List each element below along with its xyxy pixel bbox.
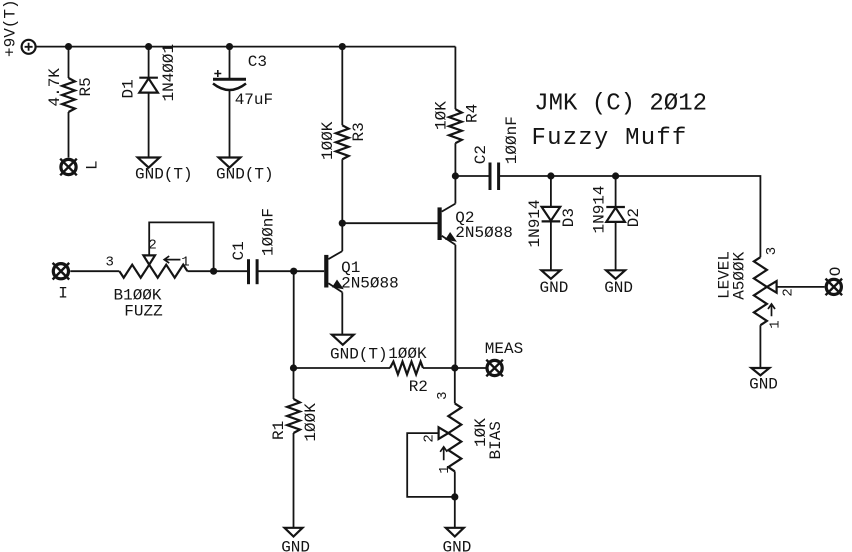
svg-text:1N914: 1N914 — [590, 185, 608, 233]
wire: junction down to R1 — [293, 368, 295, 399]
svg-text:R1: R1 — [270, 421, 288, 440]
potentiometer BIAS 10K — [422, 391, 505, 473]
node: FUZZ/C1 junction — [210, 268, 217, 275]
svg-text:3: 3 — [435, 391, 451, 399]
resistor R1 100K — [270, 399, 320, 442]
wire: rail to D2 — [615, 176, 617, 207]
node: R2/Q2/BIAS junction — [451, 364, 458, 371]
svg-text:1N4ØØ1: 1N4ØØ1 — [160, 44, 178, 102]
wire: I to FUZZ pot — [70, 270, 119, 272]
svg-text:1N914: 1N914 — [526, 199, 544, 247]
wire: rail to R3 — [341, 47, 343, 126]
diode D2 1N914 — [590, 185, 642, 233]
wire: C1 to Q1 base — [257, 270, 324, 272]
ground GND(T) under C3 — [216, 158, 274, 184]
node: BIAS loop junction — [451, 493, 458, 500]
diode D3 1N914 — [526, 199, 578, 247]
svg-text:GND: GND — [442, 539, 471, 552]
capacitor C2 100nF — [472, 116, 521, 190]
svg-text:3: 3 — [105, 255, 113, 271]
svg-text:JMK (C) 2Ø12: JMK (C) 2Ø12 — [534, 91, 707, 118]
svg-text:C3: C3 — [248, 53, 267, 71]
svg-text:R5: R5 — [77, 77, 95, 96]
svg-text:3: 3 — [764, 247, 780, 255]
resistor R3 100K — [319, 121, 368, 160]
svg-text:1: 1 — [181, 255, 189, 271]
svg-text:GND: GND — [281, 539, 310, 552]
svg-text:BIAS: BIAS — [487, 421, 505, 459]
svg-text:1ØØnF: 1ØØnF — [259, 208, 277, 256]
wire: C2 to clipping rail — [499, 176, 761, 257]
svg-text:1: 1 — [768, 320, 784, 328]
svg-text:C1: C1 — [230, 241, 248, 260]
node: C1/R1 branch junction — [290, 268, 297, 275]
node: R5 tap junction — [65, 43, 72, 50]
svg-text:Fuzzy Muff: Fuzzy Muff — [532, 125, 688, 152]
resistor R4 10K — [433, 101, 482, 143]
svg-text:1ØK: 1ØK — [433, 101, 451, 130]
node: C3 tap junction — [226, 43, 233, 50]
svg-text:2: 2 — [422, 434, 438, 442]
svg-text:I: I — [58, 285, 68, 303]
ground GND under D2 — [604, 270, 633, 297]
connector MEAS — [485, 340, 523, 376]
wire: rail to D1 — [148, 47, 150, 78]
wire: Q1 emitter to ground — [341, 292, 343, 334]
ground GND(T) under D1 — [135, 158, 193, 184]
wire: R1 to ground — [293, 433, 295, 528]
svg-text:R3: R3 — [350, 122, 368, 141]
transistor Q1 2N5088 — [324, 251, 399, 292]
wire: FUZZ to C1 — [187, 270, 248, 272]
wire: R4 to C2 node — [454, 143, 456, 176]
ground GND under D3 — [540, 270, 569, 297]
wire: Q1 collector up — [341, 223, 343, 251]
capacitor C3 47uF polarized — [213, 53, 273, 109]
svg-text:GND: GND — [540, 279, 569, 297]
svg-text:1ØØK: 1ØØK — [302, 403, 320, 442]
ground GND under BIAS — [442, 528, 471, 552]
wire: D1 to ground — [148, 93, 150, 158]
ground GND(T) under Q1 — [330, 335, 388, 364]
svg-text:D2: D2 — [625, 208, 643, 227]
node: R1 junction — [290, 364, 297, 371]
wire: R3 to Q1 collector node — [341, 159, 343, 223]
svg-text:GND: GND — [604, 279, 633, 297]
node: D3 tap junction — [547, 172, 554, 179]
connector I input — [53, 263, 70, 303]
wire: R5 to L connector — [68, 112, 70, 158]
svg-text:GND: GND — [749, 376, 778, 394]
wire: junction to C2 — [455, 175, 490, 177]
wire: LEVEL bottom to ground — [759, 325, 761, 368]
svg-text:1: 1 — [437, 465, 453, 473]
svg-text:GND(T): GND(T) — [330, 346, 388, 364]
svg-text:D3: D3 — [560, 208, 578, 227]
node: R4/C2/Q2 collector junction — [452, 172, 459, 179]
svg-text:D1: D1 — [120, 79, 138, 98]
capacitor C1 100nF — [230, 208, 277, 284]
wire: rail to C3 — [229, 47, 231, 80]
svg-text:O: O — [827, 267, 845, 277]
svg-text:4.7K: 4.7K — [46, 68, 64, 107]
node: D2 tap junction — [612, 172, 619, 179]
svg-text:1ØØK: 1ØØK — [319, 121, 337, 160]
wire: junction down to R2 rail — [293, 271, 295, 368]
power connector +9V(T) — [2, 0, 36, 57]
wire: rail to R5 — [68, 47, 70, 78]
svg-text:C2: C2 — [472, 145, 490, 164]
svg-text:R2: R2 — [409, 378, 428, 396]
wire: junction down to BIAS pot — [454, 368, 456, 403]
resistor R5 4.7K — [46, 68, 95, 112]
wire: BIAS wiper loop — [407, 433, 455, 497]
svg-text:R4: R4 — [464, 104, 482, 123]
wire: R2 to MEAS — [423, 367, 486, 369]
svg-text:47uF: 47uF — [235, 91, 273, 109]
diode D1 1N4001 — [120, 44, 178, 102]
wire: BIAS bottom to ground — [454, 471, 456, 527]
wire: rail to D3 — [550, 176, 552, 207]
svg-text:2N5Ø88: 2N5Ø88 — [341, 275, 399, 293]
node: D1 tap junction — [145, 43, 152, 50]
wire: Q2 emitter down to R2 rail — [454, 245, 456, 368]
wire: D2 to ground — [615, 222, 617, 270]
wire: junction to Q2 base — [342, 222, 437, 224]
svg-text:2: 2 — [781, 288, 797, 296]
svg-text:A5ØØK: A5ØØK — [731, 251, 749, 299]
wire: top +9V rail — [36, 46, 456, 48]
svg-text:GND(T): GND(T) — [216, 166, 274, 184]
connector O output — [826, 267, 845, 296]
wire: C3 to ground — [229, 90, 231, 158]
connector L — [60, 159, 101, 176]
resistor R2 100K — [388, 345, 428, 396]
wire: R2 rail left — [294, 367, 390, 369]
svg-text:+9V(T): +9V(T) — [2, 0, 20, 57]
wire: LEVEL wiper to O — [777, 286, 825, 288]
svg-text:1ØØK: 1ØØK — [388, 345, 427, 363]
node: R3/Q1/Q2 base junction — [339, 220, 346, 227]
svg-text:MEAS: MEAS — [485, 340, 523, 358]
ground GND under LEVEL — [749, 368, 778, 394]
svg-text:1ØØnF: 1ØØnF — [503, 116, 521, 164]
svg-text:L: L — [84, 160, 102, 170]
wire: D3 to ground — [550, 221, 552, 270]
wire: Q2 collector up — [454, 176, 456, 204]
wire: FUZZ wiper loop to output side — [149, 222, 213, 271]
potentiometer LEVEL A500K — [715, 247, 796, 329]
potentiometer FUZZ B100K — [105, 238, 189, 321]
svg-text:GND(T): GND(T) — [135, 166, 193, 184]
svg-text:2N5Ø88: 2N5Ø88 — [455, 224, 513, 242]
transistor Q2 2N5088 — [438, 204, 513, 245]
wire: rail drop to R4 — [454, 47, 456, 110]
node: R3 tap junction — [339, 43, 346, 50]
ground GND under R1 — [281, 528, 310, 552]
svg-text:FUZZ: FUZZ — [124, 303, 163, 321]
